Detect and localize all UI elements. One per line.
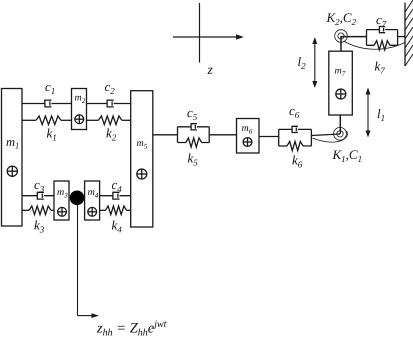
wire damper row c2 <box>87 103 131 105</box>
dimension arrow l2 <box>312 37 317 88</box>
spring k3 <box>22 209 29 211</box>
mass m7 <box>329 51 353 115</box>
mass m1 <box>2 89 23 227</box>
spring k2 <box>87 119 99 121</box>
parallel box c5 k5 <box>178 127 210 143</box>
parallel box c6 k6 <box>279 129 312 146</box>
wire c5k5 to m6 <box>209 134 236 136</box>
damper c1 <box>45 100 52 107</box>
mass m2 <box>72 89 87 130</box>
pivot circles K2C2 <box>335 30 348 43</box>
dimension arrow l1 <box>366 88 371 138</box>
inertia symbol m4 <box>88 207 97 216</box>
wall line <box>404 3 406 67</box>
spring k5 <box>186 138 202 147</box>
inertia symbol m3 <box>58 207 67 216</box>
spring k6 <box>287 141 303 150</box>
damper c7 <box>379 27 385 33</box>
inertia symbol m6 <box>243 138 252 147</box>
mass m6 <box>237 119 260 154</box>
damper c2 <box>107 100 114 107</box>
wire damper row c4 <box>100 195 131 197</box>
damper c5 <box>191 124 197 130</box>
wire pivot K2C2 to c7k7 <box>341 36 367 38</box>
hinge ball joint <box>70 191 85 206</box>
parallel box c7 k7 <box>367 30 398 46</box>
wire damper row c1 <box>22 103 72 105</box>
wire m5 to c5k5 <box>153 134 178 136</box>
wire excitation vertical <box>77 205 79 316</box>
pivot circles K1C1 <box>334 127 347 140</box>
inertia symbol m5 <box>137 169 147 179</box>
z-axis vertical line <box>199 3 201 63</box>
inertia symbol m2 <box>75 115 84 124</box>
inertia symbol m7 <box>336 89 346 99</box>
wire m6 to c6k6 <box>259 136 279 138</box>
wall hatching <box>405 0 413 66</box>
damper c4 <box>113 192 120 199</box>
wire m7 top link <box>340 36 342 51</box>
wire damper row c3 <box>22 195 54 197</box>
damper c3 <box>37 192 44 199</box>
inertia symbol m1 <box>7 166 17 176</box>
excitation arrow <box>78 313 100 318</box>
spring k1 <box>22 119 36 121</box>
spring k7 <box>374 41 390 50</box>
z-axis arrow <box>173 34 244 39</box>
mass m4 <box>85 181 100 220</box>
svg-text:z: z <box>207 62 214 77</box>
svg-text:K1,C1: K1,C1 <box>332 147 363 164</box>
wire c7k7 to wall <box>398 36 405 38</box>
mass m5 <box>131 91 153 227</box>
wire m7 bottom link <box>339 115 341 134</box>
torsional spring tail K1C1 <box>313 131 348 143</box>
damper c6 <box>292 126 298 132</box>
mass m3 <box>54 181 69 220</box>
wire c6k6 to pivot K1C1 <box>311 134 340 136</box>
spring k4 <box>100 209 106 211</box>
torsional spring tail K2C2 <box>344 41 406 49</box>
